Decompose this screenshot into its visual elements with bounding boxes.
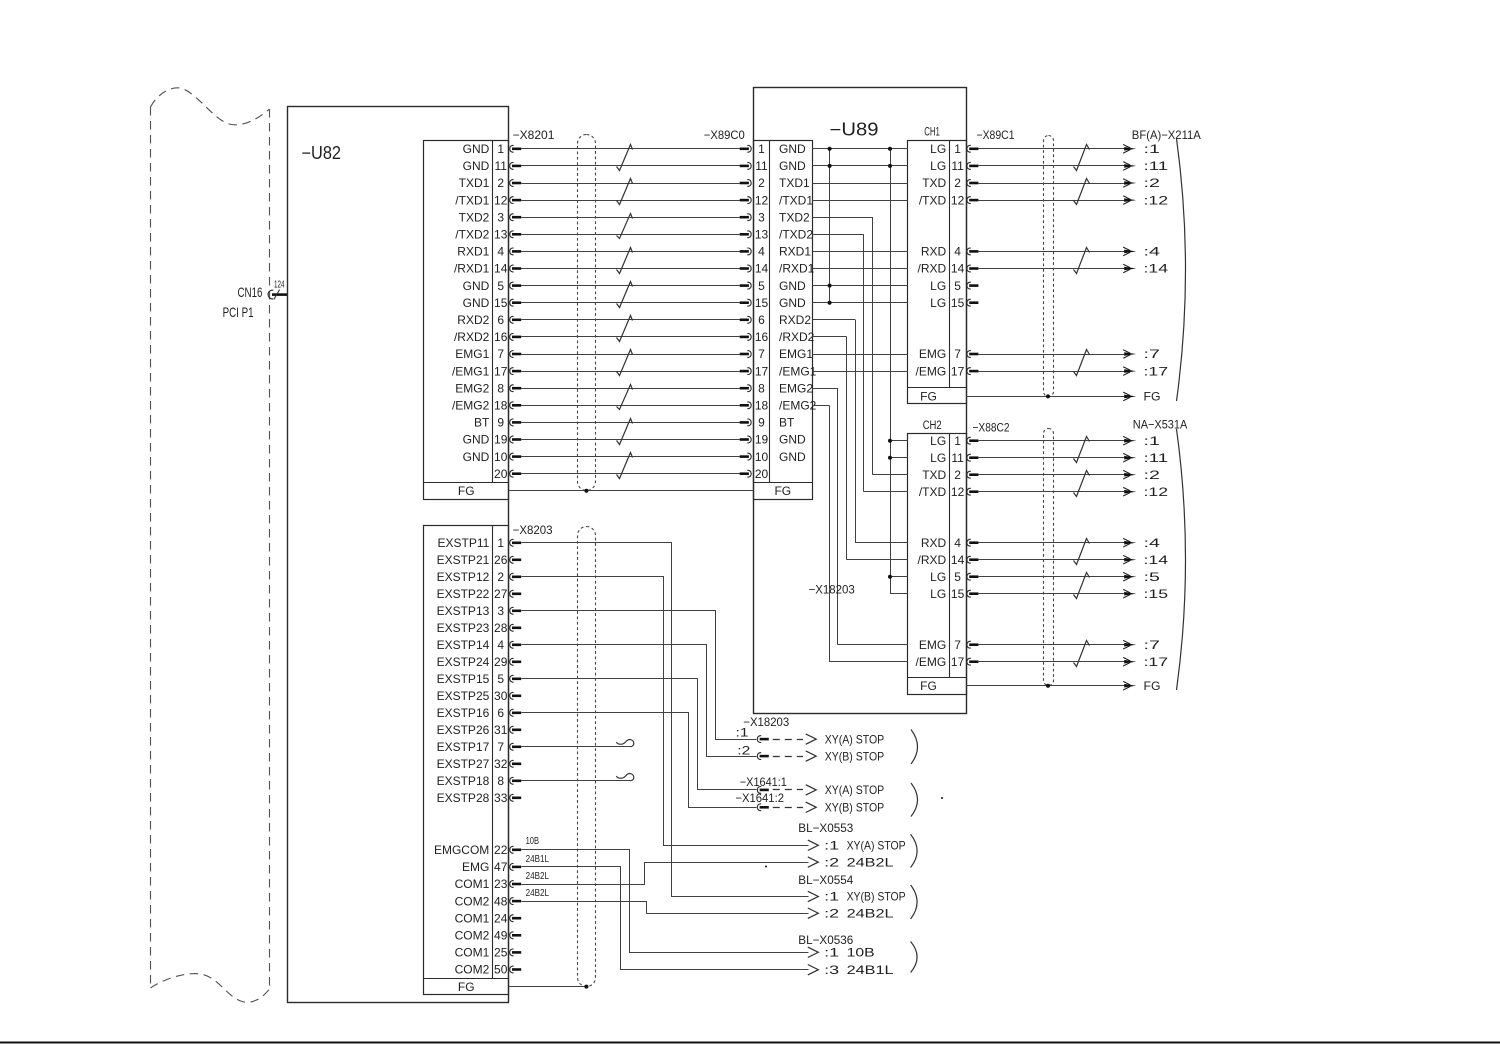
svg-text::14: :14 <box>1144 262 1169 276</box>
CH2 pin 11 LG <box>930 451 978 465</box>
svg-text:6: 6 <box>758 313 765 327</box>
connector X8201 pin 18 /EMG2 <box>452 399 521 413</box>
svg-text:/RXD: /RXD <box>918 553 947 567</box>
connector X89C0 pin 14 /RXD1 <box>740 262 815 276</box>
arrow BL-X0553 :2 24B2L <box>808 857 819 867</box>
svg-text::2: :2 <box>737 743 750 757</box>
svg-text:TXD2: TXD2 <box>459 210 490 224</box>
svg-text:EXSTP17: EXSTP17 <box>437 740 490 754</box>
svg-text:LG: LG <box>930 296 946 310</box>
svg-text:8: 8 <box>497 381 504 395</box>
connector X89C0 pin 3 TXD2 <box>740 210 810 224</box>
speck <box>765 866 767 868</box>
connector X8201 pin 14 /RXD1 <box>454 262 521 276</box>
svg-text:BF(A)−X211A: BF(A)−X211A <box>1132 128 1201 142</box>
wire X89C0 row11 to bus x847 <box>813 336 847 338</box>
connector X8203 pin 2 EXSTP12 <box>437 570 522 584</box>
wire X8201-17 to X89C0-17 <box>521 371 740 373</box>
svg-text:50: 50 <box>494 963 508 977</box>
wire X89C0 row2 to CH1 <box>813 183 908 185</box>
svg-text:/EMG1: /EMG1 <box>779 364 817 378</box>
svg-text:/TXD: /TXD <box>919 485 947 499</box>
connector X8203 pin 33 EXSTP28 <box>437 791 522 805</box>
connector X8201 pin 5 GND <box>463 279 522 293</box>
CH2 pin 7 EMG <box>919 638 979 652</box>
svg-text:RXD1: RXD1 <box>779 245 811 259</box>
svg-text:5: 5 <box>497 279 504 293</box>
junction LG short bus <box>828 164 832 168</box>
svg-text:/RXD1: /RXD1 <box>779 262 815 276</box>
connector X8203 pin 7 EXSTP17 <box>437 740 522 754</box>
bracket X1641 group <box>911 783 918 817</box>
CH2 pin 12 /TXD <box>919 485 979 499</box>
junction LG short bus <box>828 147 832 151</box>
svg-text:4: 4 <box>954 245 961 259</box>
junction shield4 FG <box>584 985 588 989</box>
CH2 connector block <box>908 433 967 695</box>
svg-text:TXD1: TXD1 <box>459 176 490 190</box>
svg-text:29: 29 <box>494 655 508 669</box>
svg-text:EXSTP15: EXSTP15 <box>437 672 490 686</box>
svg-text:15: 15 <box>951 296 965 310</box>
svg-text::12: :12 <box>1144 485 1169 499</box>
wire X89C0 row14 to bus x838 <box>813 388 838 390</box>
svg-text:−X18203: −X18203 <box>809 582 856 596</box>
svg-text:GND: GND <box>463 279 490 293</box>
wire EXSTP16 pin6 to X1641:2 <box>522 713 757 808</box>
CH1 pin 4 RXD <box>921 245 979 259</box>
connector X1641 to XY(A) STOP <box>757 787 768 794</box>
connector X8201 pin 11 GND <box>463 159 522 173</box>
bracket X18203 group <box>911 730 918 765</box>
wire X8201-13 to X89C0-13 <box>521 234 740 236</box>
svg-text:17: 17 <box>494 364 508 378</box>
page bottom border line <box>0 1042 1500 1044</box>
svg-text:BL−X0554: BL−X0554 <box>798 873 853 887</box>
connector X89C0 pin 15 GND <box>740 296 806 310</box>
junction LG short bus <box>828 284 832 288</box>
connector X8203 pin 29 EXSTP24 <box>437 655 522 669</box>
wire bus to CH2 row9 <box>890 593 908 595</box>
wire CH1 to :4 BF(A)-X211A <box>978 251 1127 253</box>
bracket BL-X0536 <box>911 942 918 973</box>
svg-text:6: 6 <box>497 706 504 720</box>
connector X89C0 pin 13 /TXD2 <box>740 228 814 242</box>
svg-text::1: :1 <box>736 725 749 739</box>
svg-text:COM2: COM2 <box>455 929 490 943</box>
svg-text:XY(B) STOP: XY(B) STOP <box>825 801 885 815</box>
svg-text:12: 12 <box>755 193 769 207</box>
svg-text:GND: GND <box>779 296 806 310</box>
connector X8203 pin 5 EXSTP15 <box>437 672 522 686</box>
wire bus to CH2 row7 <box>847 559 908 561</box>
svg-text:24B2L: 24B2L <box>847 855 894 869</box>
svg-text:/EMG2: /EMG2 <box>779 399 817 413</box>
svg-text:/TXD2: /TXD2 <box>779 228 813 242</box>
arrow BL-X0553 :1 XY(A) STOP <box>808 840 819 850</box>
connector X8201 pin 7 EMG1 <box>455 347 521 361</box>
svg-text:EXSTP18: EXSTP18 <box>437 774 490 788</box>
arrow BL-X0554 :2 24B2L <box>808 908 819 918</box>
svg-text:/TXD: /TXD <box>919 193 947 207</box>
wire X8201-1 to X89C0-1 <box>521 148 740 150</box>
wire EMG pin47 to BL-X0536 :3 <box>522 867 809 970</box>
svg-text::17: :17 <box>1144 655 1169 669</box>
CH1 pin 17 /EMG <box>916 364 979 378</box>
svg-text:LG: LG <box>930 279 946 293</box>
connector X8201 pin 17 /EMG1 <box>452 364 521 378</box>
svg-text:FG: FG <box>920 389 937 403</box>
twisted pair mark cable1 pair 1 <box>617 145 633 171</box>
svg-text:6: 6 <box>497 313 504 327</box>
svg-text::4: :4 <box>1144 245 1161 259</box>
CH1 pin 1 LG <box>930 142 978 156</box>
svg-text::1: :1 <box>824 839 839 853</box>
cable shield X8203 <box>578 527 596 987</box>
svg-text:2: 2 <box>954 468 961 482</box>
svg-text:11: 11 <box>951 159 964 173</box>
cable shield X8201-X89C0 <box>578 135 596 491</box>
svg-text:32: 32 <box>494 757 508 771</box>
CH2 pin 14 /RXD <box>918 553 979 567</box>
wire CH2 to :14 NA-X531A <box>978 559 1127 561</box>
svg-text:GND: GND <box>463 142 490 156</box>
svg-text:4: 4 <box>497 245 504 259</box>
svg-text:−X8203: −X8203 <box>513 523 553 537</box>
CH1 pin 12 /TXD <box>919 193 979 207</box>
svg-text:COM1: COM1 <box>455 877 490 891</box>
svg-text:EMG: EMG <box>919 347 946 361</box>
wire CH1 to :12 BF(A)-X211A <box>978 200 1127 202</box>
bracket BL-X0554 <box>911 885 918 919</box>
FG shield wire X8203 <box>509 986 587 988</box>
wire CH1 to :2 BF(A)-X211A <box>978 183 1127 185</box>
svg-text:19: 19 <box>755 433 769 447</box>
svg-text:124: 124 <box>274 280 285 291</box>
svg-text:EMG2: EMG2 <box>455 381 489 395</box>
svg-text:5: 5 <box>758 279 765 293</box>
svg-text:−U89: −U89 <box>830 120 879 140</box>
wire CH2 to :1 NA-X531A <box>978 440 1127 442</box>
connector X89C0 pin 16 /RXD2 <box>740 330 815 344</box>
svg-text:10: 10 <box>755 450 769 464</box>
twisted pair mark cable3 pair 5 <box>1074 641 1090 667</box>
svg-text:12: 12 <box>494 193 508 207</box>
wire X89C0 row1 to CH1 <box>813 165 908 167</box>
svg-text:/EMG: /EMG <box>916 655 947 669</box>
connector X8201 pin 13 /TXD2 <box>455 228 521 242</box>
svg-text:49: 49 <box>494 929 508 943</box>
svg-text:RXD2: RXD2 <box>457 313 489 327</box>
svg-text:COM1: COM1 <box>455 946 490 960</box>
wire CH2 to :15 NA-X531A <box>978 593 1127 595</box>
svg-text:24: 24 <box>494 911 508 925</box>
svg-text:11: 11 <box>755 159 768 173</box>
svg-text:GND: GND <box>463 433 490 447</box>
svg-text:5: 5 <box>954 279 961 293</box>
svg-text:−X1641:1: −X1641:1 <box>740 775 787 789</box>
svg-text:14: 14 <box>951 553 965 567</box>
connector X8201 pin 10 GND <box>463 450 522 464</box>
CH2 pin 17 /EMG <box>916 655 979 669</box>
connector X8203 block <box>424 526 509 995</box>
svg-text:11: 11 <box>494 159 507 173</box>
svg-text:EXSTP16: EXSTP16 <box>437 706 490 720</box>
CH1 pin 5 LG <box>930 279 978 293</box>
svg-text:TXD2: TXD2 <box>779 210 810 224</box>
twisted pair mark cable1 pair 7 <box>617 350 633 376</box>
svg-text::11: :11 <box>1144 159 1169 173</box>
svg-text:EXSTP12: EXSTP12 <box>437 570 490 584</box>
junction LG short bus <box>828 301 832 305</box>
svg-text:4: 4 <box>497 638 504 652</box>
bus wire LG long <box>890 149 892 594</box>
connector X8203 pin 48 COM2 <box>455 894 522 908</box>
svg-text:GND: GND <box>779 142 806 156</box>
svg-text:1: 1 <box>497 536 504 550</box>
svg-text:XY(A) STOP: XY(A) STOP <box>825 783 885 797</box>
svg-text:/RXD2: /RXD2 <box>454 330 490 344</box>
svg-text::1: :1 <box>1144 142 1161 156</box>
wire bus to CH2 row13 <box>829 661 908 663</box>
connector X89C0 pin 18 /EMG2 <box>740 399 817 413</box>
svg-text:9: 9 <box>497 416 504 430</box>
svg-text:2: 2 <box>497 176 504 190</box>
connector X89C0 pin 20 <box>740 467 769 481</box>
svg-text:−X89C1: −X89C1 <box>977 128 1015 142</box>
svg-text:EXSTP25: EXSTP25 <box>437 689 490 703</box>
svg-text:2: 2 <box>954 176 961 190</box>
wire X89C0 row7 to CH1 <box>813 268 908 270</box>
svg-text:BT: BT <box>474 416 490 430</box>
svg-text:GND: GND <box>779 279 806 293</box>
svg-text:FG: FG <box>774 484 791 498</box>
arrow BL-X0554 :1 XY(B) STOP <box>808 891 819 901</box>
bracket NA-X531A <box>1177 429 1186 690</box>
connector X8203 pin 49 COM2 <box>455 929 522 943</box>
svg-text:FG: FG <box>920 679 937 693</box>
svg-text:EXSTP21: EXSTP21 <box>437 553 490 567</box>
svg-text:−X89C0: −X89C0 <box>704 128 745 142</box>
svg-text:10: 10 <box>494 450 508 464</box>
junction LG long bus <box>888 147 892 151</box>
svg-text::3: :3 <box>824 963 839 977</box>
svg-text:EXSTP23: EXSTP23 <box>437 621 490 635</box>
svg-text:BL−X0553: BL−X0553 <box>798 821 853 835</box>
svg-text:−U82: −U82 <box>302 143 342 163</box>
svg-text:22: 22 <box>494 843 508 857</box>
svg-text:31: 31 <box>494 723 508 737</box>
connector X8201 pin 12 /TXD1 <box>455 193 521 207</box>
svg-text:−X8201: −X8201 <box>513 128 555 142</box>
wire CH2 to :7 NA-X531A <box>978 644 1127 646</box>
arrow BL-X0536 :1 10B <box>808 947 819 957</box>
wire bus to CH2 row0 <box>890 440 908 442</box>
connector X89C0 block <box>753 141 812 500</box>
svg-text:8: 8 <box>497 774 504 788</box>
cable shield X88C2 <box>1044 429 1054 686</box>
boundary dashed outline PCI board <box>151 88 270 1002</box>
wire X89C0 row0 to CH1 <box>813 148 908 150</box>
bus wire /EMG2 <box>829 405 831 661</box>
wire X8201-11 to X89C0-11 <box>521 165 740 167</box>
svg-text:EXSTP11: EXSTP11 <box>437 536 489 550</box>
connector X89C0 pin 7 EMG1 <box>740 347 814 361</box>
svg-text:24B2L: 24B2L <box>526 871 550 882</box>
wire X8201-9 to X89C0-9 <box>521 422 740 424</box>
svg-text:13: 13 <box>494 228 508 242</box>
svg-text:7: 7 <box>954 347 961 361</box>
svg-text:2: 2 <box>497 570 504 584</box>
twisted pair mark cable1 pair 9 <box>617 419 633 445</box>
svg-text:TXD: TXD <box>922 468 946 482</box>
svg-text:19: 19 <box>494 433 508 447</box>
svg-text:1: 1 <box>497 142 504 156</box>
wire X8201-12 to X89C0-12 <box>521 200 740 202</box>
wire X89C0 row3 to CH1 <box>813 200 908 202</box>
svg-text::4: :4 <box>1144 536 1161 550</box>
connector X8203 pin 28 EXSTP23 <box>437 621 522 635</box>
FG shield wire X8201-X89C0 <box>509 490 753 492</box>
svg-text:24B2L: 24B2L <box>526 888 550 899</box>
svg-text:EXSTP13: EXSTP13 <box>437 604 490 618</box>
svg-text::17: :17 <box>1144 364 1169 378</box>
wire X8201-19 to X89C0-19 <box>521 439 740 441</box>
connector X8203 pin 8 EXSTP18 <box>437 774 522 788</box>
connector X89C0 pin 9 BT <box>740 416 795 430</box>
svg-text:FG: FG <box>458 980 475 994</box>
bus wire RXD2 <box>855 320 857 543</box>
svg-text:33: 33 <box>494 791 508 805</box>
wire bus to CH2 row12 <box>838 644 908 646</box>
wire X89C0 row10 to bus x855 <box>813 319 856 321</box>
wire CH2 to :4 NA-X531A <box>978 542 1127 544</box>
twisted pair mark cable3 pair 4 <box>1074 573 1090 599</box>
svg-text:1: 1 <box>758 142 765 156</box>
svg-text:RXD: RXD <box>921 536 947 550</box>
bracket BF(A)-X211A <box>1177 139 1186 402</box>
connector X8201 pin 8 EMG2 <box>455 381 521 395</box>
svg-text:CH2: CH2 <box>923 420 942 432</box>
svg-text::1: :1 <box>824 890 839 904</box>
svg-text:16: 16 <box>494 330 508 344</box>
junction LG long bus <box>888 164 892 168</box>
wire X89C0 row5 to bus x864 <box>813 234 864 236</box>
connector X89C0 pin 19 GND <box>740 433 806 447</box>
connector X8203 pin 27 EXSTP22 <box>437 587 522 601</box>
svg-text:GND: GND <box>463 159 490 173</box>
connector X8201 pin 9 BT <box>474 416 521 430</box>
wire CH1 to :11 BF(A)-X211A <box>978 165 1127 167</box>
svg-text:7: 7 <box>497 347 504 361</box>
CH2 pin 4 RXD <box>921 536 979 550</box>
wire X8201-14 to X89C0-14 <box>521 268 740 270</box>
svg-text:10B: 10B <box>526 836 540 847</box>
connector X8203 pin 23 COM1 <box>455 877 522 891</box>
svg-text::1: :1 <box>824 946 839 960</box>
FG wire X88C2 <box>966 685 1127 687</box>
wire X89C0 row12 to CH1 <box>813 354 908 356</box>
svg-text:/EMG2: /EMG2 <box>452 399 490 413</box>
wire EXSTP15 pin5 to X1641:1 <box>522 679 757 790</box>
svg-text:5: 5 <box>497 672 504 686</box>
twisted pair mark cable2 pair 4 <box>1074 350 1090 376</box>
svg-text:CH1: CH1 <box>924 127 940 139</box>
svg-text:XY(B) STOP: XY(B) STOP <box>825 749 885 763</box>
svg-text:30: 30 <box>494 689 508 703</box>
wire CH2 to :11 NA-X531A <box>978 457 1127 459</box>
svg-text:RXD1: RXD1 <box>457 245 489 259</box>
bus wire /RXD2 <box>846 337 848 560</box>
wire EXSTP17 pin7 unterminated <box>521 746 630 748</box>
wire COM1 pin23 to BL-X0553 :2 <box>522 863 809 885</box>
twisted pair mark cable3 pair 1 <box>1074 437 1090 463</box>
bus wire LG short <box>829 149 831 303</box>
connector X89C0 pin 10 GND <box>740 450 806 464</box>
twisted pair mark cable1 pair 5 <box>617 282 633 308</box>
svg-text:3: 3 <box>497 604 504 618</box>
wire X8201-10 to X89C0-10 <box>521 456 740 458</box>
svg-text:17: 17 <box>951 364 965 378</box>
curl wire end pin 7 <box>616 740 633 747</box>
svg-text:7: 7 <box>758 347 765 361</box>
svg-text:EMG1: EMG1 <box>779 347 813 361</box>
wire X8201-20 to X89C0-20 <box>521 473 740 475</box>
wire EXSTP13 pin3 to X18203 :1 <box>522 611 757 740</box>
connector X8203 pin 30 EXSTP25 <box>437 689 522 703</box>
wire X8201-6 to X89C0-6 <box>521 319 740 321</box>
connector X8203 pin 47 EMG <box>462 860 521 874</box>
CH2 pin 1 LG <box>930 434 978 448</box>
svg-text:LG: LG <box>930 587 946 601</box>
svg-text:FG: FG <box>1144 390 1161 404</box>
svg-text:7: 7 <box>497 740 504 754</box>
wire EXSTP12 pin2 to BL-X0553 :1 <box>522 577 809 846</box>
wire CH1 to :7 BF(A)-X211A <box>978 354 1127 356</box>
svg-text:47: 47 <box>494 860 508 874</box>
svg-text:LG: LG <box>930 142 946 156</box>
wire X89C0 row6 to CH1 <box>813 251 908 253</box>
svg-text:14: 14 <box>494 262 508 276</box>
connector X8203 pin 25 COM1 <box>455 946 522 960</box>
connector X1641 to XY(B) STOP <box>757 804 768 811</box>
wire X8201-15 to X89C0-15 <box>521 302 740 304</box>
wire bus to CH2 row6 <box>855 542 907 544</box>
connector X8201 pin 4 RXD1 <box>457 245 521 259</box>
connector X8201 pin 20 <box>494 467 521 481</box>
twisted pair mark cable1 pair 8 <box>617 385 633 410</box>
svg-text:NA−X531A: NA−X531A <box>1133 418 1188 432</box>
bus wire /TXD2 <box>863 234 865 491</box>
twisted pair mark cable1 pair 2 <box>617 179 633 205</box>
svg-text:15: 15 <box>951 587 965 601</box>
svg-text:10B: 10B <box>847 946 875 960</box>
svg-text:XY(B) STOP: XY(B) STOP <box>847 890 906 904</box>
wire X89C0 row15 to bus x829 <box>813 405 830 407</box>
svg-text:20: 20 <box>494 467 508 481</box>
wire CH2 to :5 NA-X531A <box>978 576 1127 578</box>
connector X8201 pin 2 TXD1 <box>459 176 522 190</box>
svg-text:7: 7 <box>954 638 961 652</box>
svg-text:8: 8 <box>758 381 765 395</box>
svg-text:28: 28 <box>494 621 508 635</box>
connector X8203 pin 26 EXSTP21 <box>437 553 522 567</box>
svg-text::15: :15 <box>1144 587 1169 601</box>
twisted pair mark cable2 pair 1 <box>1074 145 1090 171</box>
wire bus to CH2 row8 <box>890 576 908 578</box>
svg-text:XY(A) STOP: XY(A) STOP <box>825 732 885 746</box>
connector X89C0 pin 17 /EMG1 <box>740 364 817 378</box>
